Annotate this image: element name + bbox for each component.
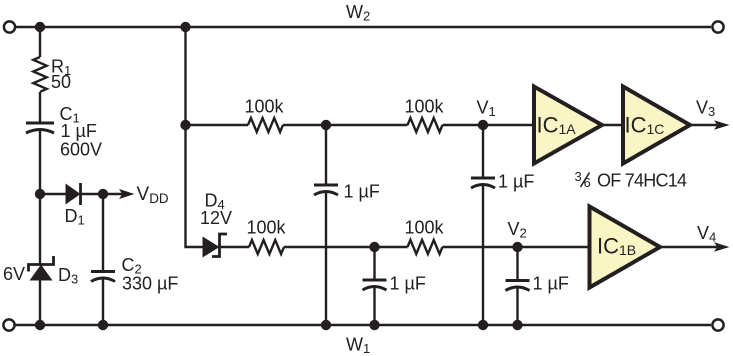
resistor 100k row1 second (408, 118, 443, 132)
wire V1 node down to cap (482, 125, 484, 178)
junction top rail / R1 branch (35, 22, 45, 32)
svg-text:600V: 600V (60, 140, 102, 160)
svg-text:100k: 100k (246, 218, 286, 238)
svg-text:100k: 100k (404, 97, 444, 117)
node V2 (512, 242, 522, 252)
wire top rail to R1 (39, 27, 41, 57)
resistor 100k row2 second (408, 240, 443, 254)
wire R1 to C1 (39, 92, 41, 123)
svg-text:6: 6 (584, 175, 591, 190)
junction top rail / divider branch (180, 22, 190, 32)
svg-text:50: 50 (51, 72, 71, 92)
wire D3 to bottom rail (39, 280, 41, 325)
wire D1 cathode (81, 193, 104, 195)
resistor 100k row2 first (249, 240, 284, 254)
wire W1 bottom rail (15, 324, 711, 326)
wire D1 anode (40, 193, 66, 195)
wire V2 cap to bottom rail (516, 288, 518, 325)
wire D1 node down to D3 (39, 194, 41, 265)
wire row2 to IC1B (443, 246, 590, 248)
wire row2 mid (284, 246, 408, 248)
junction bottom rail x=326 (321, 320, 331, 330)
wire D4 to 100k (220, 246, 250, 248)
svg-text:OF 74HC14: OF 74HC14 (597, 171, 687, 191)
capacitor C2 (91, 272, 115, 282)
wire W2 top rail (15, 26, 711, 28)
junction row1 mid (321, 120, 331, 130)
capacitor C1 (26, 123, 54, 133)
wire mid column down to cap (325, 125, 327, 185)
node V1 (478, 120, 488, 130)
inverter IC1A (534, 87, 602, 164)
wire row1 junction to 100k (186, 124, 249, 126)
junction bottom rail x=483 (478, 320, 488, 330)
inverter IC1C (623, 87, 690, 164)
svg-text:330 µF: 330 µF (122, 274, 178, 294)
wire row1 mid (283, 124, 408, 126)
junction bottom rail x=374.5 (369, 320, 379, 330)
junction row1 left (180, 120, 190, 130)
svg-text:1 µF: 1 µF (390, 274, 426, 294)
arrow V4 output (660, 242, 730, 252)
zener diode D3 (29, 256, 54, 281)
capacitor 1uF row2 mid (363, 280, 387, 290)
junction bottom rail x=103 (98, 320, 108, 330)
svg-text:100k: 100k (244, 97, 284, 117)
junction bottom rail x=40 (35, 320, 45, 330)
wire mid cap to bottom rail (325, 193, 327, 326)
resistor 100k row1 first (248, 118, 283, 132)
wire row1 to IC1A (443, 124, 535, 126)
capacitor 1uF at V1 (471, 178, 495, 188)
junction VDD row right (98, 189, 108, 199)
wire C1 to D1 node (39, 131, 41, 195)
terminal bottom-left (3, 319, 14, 330)
resistor R1 (33, 57, 46, 92)
arrow to VDD (103, 189, 135, 199)
svg-text:6V: 6V (3, 264, 25, 284)
svg-text:1 µF: 1 µF (61, 121, 97, 141)
svg-text:1 µF: 1 µF (533, 274, 569, 294)
diode D1 (66, 183, 81, 205)
wire VDD node down to C2 (102, 194, 104, 272)
label 3/6 OF 74HC14 (575, 169, 688, 191)
terminal top-left (4, 21, 15, 32)
junction row2 mid (369, 242, 379, 252)
arrow V3 output (690, 120, 730, 130)
svg-text:1 µF: 1 µF (344, 182, 380, 202)
terminal bottom-right (712, 319, 723, 330)
wire V1 cap to bottom rail (482, 186, 484, 326)
svg-text:100k: 100k (404, 218, 444, 238)
svg-text:3: 3 (575, 169, 582, 184)
capacitor 1uF at V2 (506, 281, 530, 291)
svg-text:12V: 12V (200, 208, 232, 228)
wire row2 mid cap to bottom rail (373, 288, 375, 326)
wire V2 node down to cap (516, 247, 518, 281)
wire IC1A to IC1C (602, 124, 623, 126)
wire C2 to bottom rail (102, 279, 104, 325)
svg-text:1 µF: 1 µF (498, 172, 534, 192)
junction VDD row left (35, 189, 45, 199)
capacitor 1uF mid column (314, 185, 338, 195)
terminal top-right (712, 21, 723, 32)
inverter IC1B (590, 207, 661, 288)
wire divider column (top rail to D4 corner) (186, 27, 204, 247)
junction bottom rail x=517.5 (512, 320, 522, 330)
zener diode D4 (203, 234, 228, 258)
wire row2 mid junction down to cap (373, 247, 375, 280)
